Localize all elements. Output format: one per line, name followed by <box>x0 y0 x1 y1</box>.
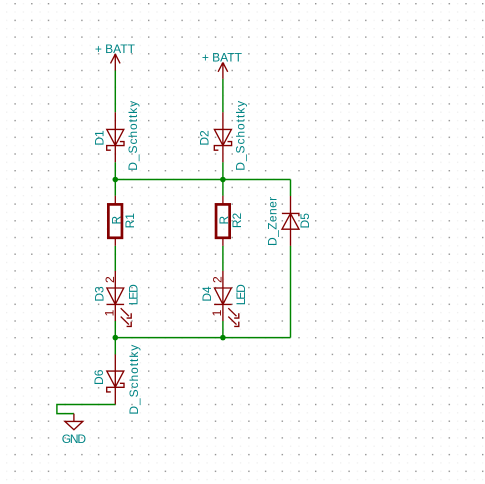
power symbol +BATT (right) <box>218 62 228 79</box>
diode D6 (Schottky) <box>107 354 124 404</box>
svg-text:+ BATT: + BATT <box>95 42 136 56</box>
wire bottom rail <box>115 337 290 339</box>
wire D5 to bottom rail <box>290 246 292 338</box>
svg-text:LED: LED <box>127 284 141 305</box>
wire rail to R2 <box>222 180 224 196</box>
svg-text:1: 1 <box>210 309 224 316</box>
svg-text:R1: R1 <box>123 213 137 229</box>
svg-text:D3: D3 <box>93 286 107 302</box>
wire D4 to bottom rail <box>222 321 224 338</box>
wire D6 to GND <box>57 405 115 414</box>
svg-text:R: R <box>109 216 123 225</box>
wire +BATT2 to D2 <box>222 79 224 112</box>
svg-text:D_Schottky: D_Schottky <box>127 344 141 415</box>
svg-text:D1: D1 <box>92 130 106 146</box>
svg-text:R2: R2 <box>230 213 244 229</box>
junction top-left <box>113 177 119 183</box>
resistor R2 <box>216 196 230 246</box>
svg-text:D6: D6 <box>92 369 106 385</box>
svg-text:D_Schottky: D_Schottky <box>234 100 248 171</box>
diode D1 (Schottky) <box>107 112 124 162</box>
wire R1 to D3 <box>114 246 116 271</box>
LED D4 <box>214 271 239 327</box>
LED D3 <box>107 271 132 327</box>
svg-text:R: R <box>217 216 231 225</box>
wire bottom rail to D6 <box>114 338 116 355</box>
junction bottom-left <box>113 335 119 341</box>
wire D2 to top rail <box>222 162 224 179</box>
svg-text:D_Zener: D_Zener <box>265 196 279 246</box>
wire D3 to bottom rail <box>114 321 116 338</box>
svg-text:GND: GND <box>62 432 87 446</box>
svg-text:2: 2 <box>103 276 117 283</box>
ground <box>65 414 83 430</box>
svg-text:D5: D5 <box>298 213 312 229</box>
wire D1 to top rail <box>114 162 116 179</box>
svg-text:D4: D4 <box>200 286 214 302</box>
svg-text:D2: D2 <box>198 130 212 146</box>
svg-text:1: 1 <box>102 309 116 316</box>
wire top rail to D5 <box>290 180 292 197</box>
junction top-middle <box>220 177 226 183</box>
svg-text:2: 2 <box>211 276 225 283</box>
power symbol +BATT (left) <box>111 54 121 71</box>
resistor R1 <box>108 196 122 246</box>
junction bottom-middle <box>220 335 226 341</box>
svg-text:+ BATT: + BATT <box>202 51 243 65</box>
wire +BATT1 to D1 <box>114 71 116 113</box>
wire rail to R1 <box>114 180 116 196</box>
diode D5 (Zener) <box>282 196 299 246</box>
wire top rail <box>115 179 290 181</box>
svg-text:D_Schottky: D_Schottky <box>126 100 140 171</box>
diode D2 (Schottky) <box>214 112 231 162</box>
svg-text:LED: LED <box>234 284 248 305</box>
wire R2 to D4 <box>222 246 224 271</box>
